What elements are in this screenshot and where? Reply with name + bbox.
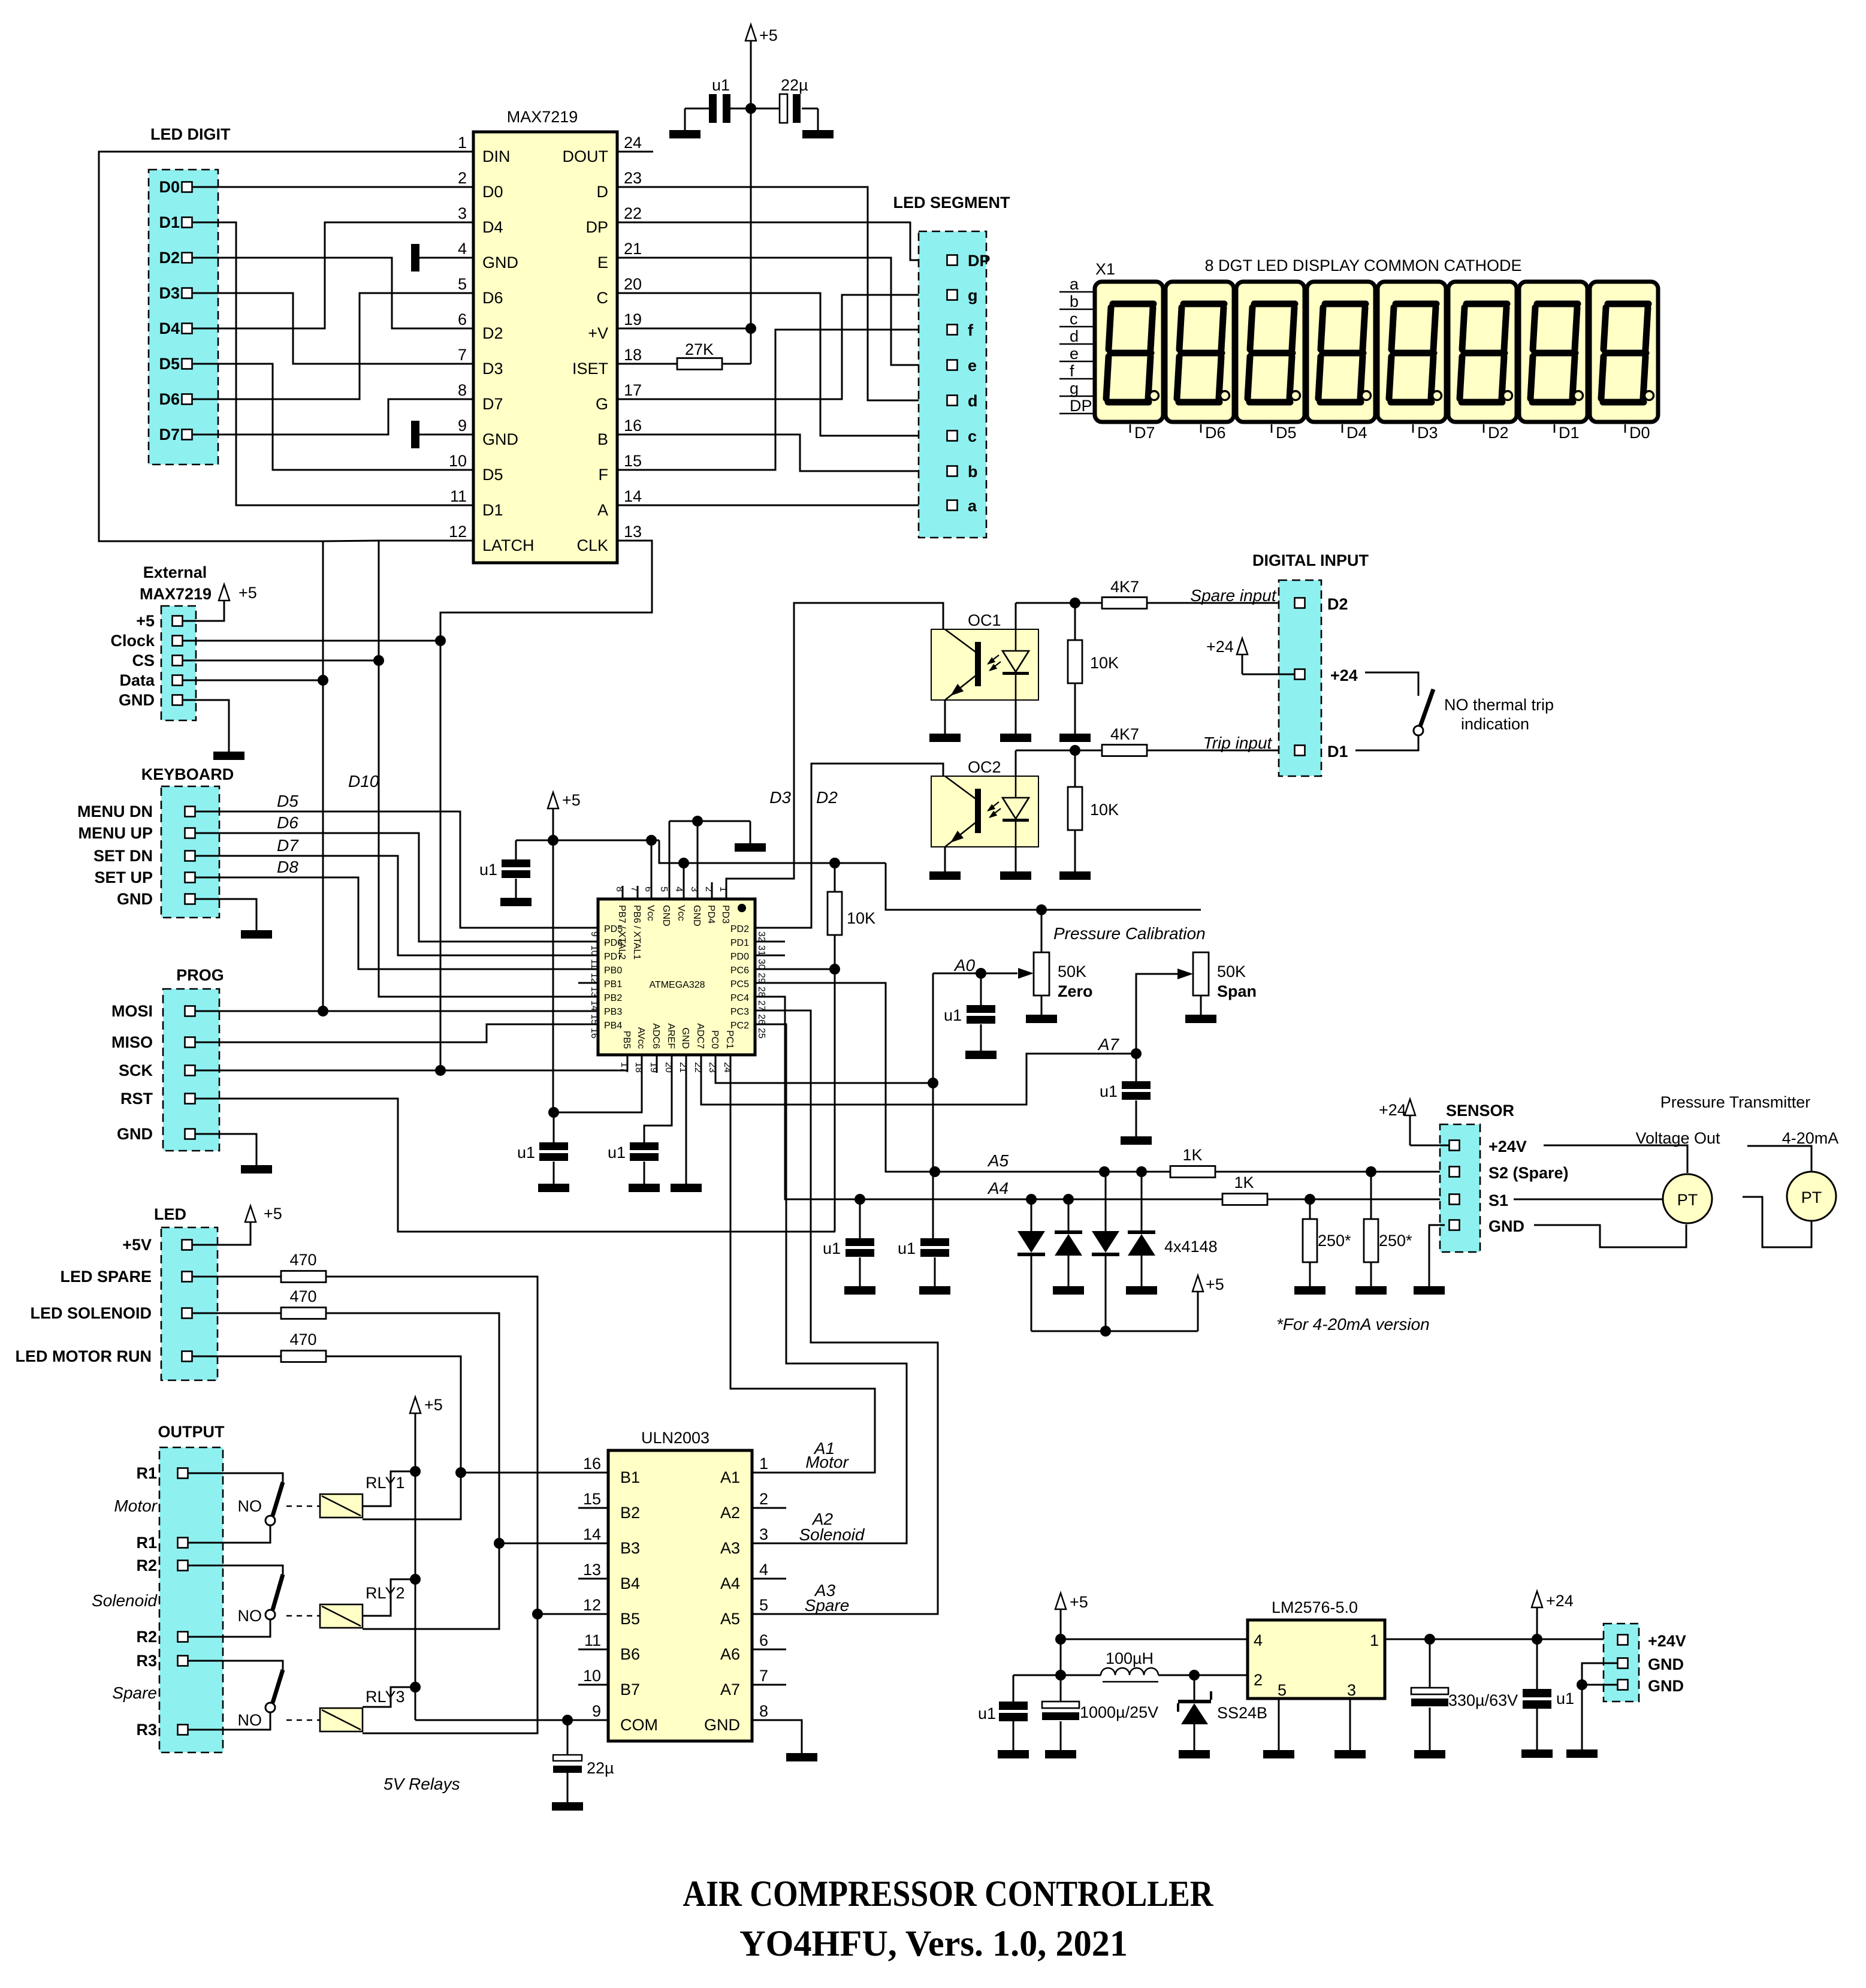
svg-text:6: 6 bbox=[759, 1631, 768, 1649]
svg-text:B4: B4 bbox=[620, 1574, 640, 1592]
svg-text:13: 13 bbox=[624, 523, 642, 541]
svg-text:PROG: PROG bbox=[176, 966, 224, 984]
svg-text:PD4: PD4 bbox=[706, 905, 716, 924]
svg-text:10: 10 bbox=[589, 945, 599, 956]
svg-text:S1: S1 bbox=[1488, 1191, 1508, 1209]
svg-text:R2: R2 bbox=[136, 1628, 157, 1646]
svg-text:A4: A4 bbox=[720, 1574, 740, 1592]
svg-text:ULN2003: ULN2003 bbox=[641, 1429, 709, 1447]
svg-text:AVcc: AVcc bbox=[636, 1027, 646, 1049]
svg-text:PB2: PB2 bbox=[604, 993, 622, 1003]
svg-text:D4: D4 bbox=[1346, 424, 1367, 442]
svg-text:indication: indication bbox=[1461, 715, 1529, 733]
svg-text:1: 1 bbox=[1370, 1631, 1379, 1649]
svg-text:15: 15 bbox=[589, 1014, 599, 1025]
svg-text:D1: D1 bbox=[159, 213, 180, 231]
svg-text:Motor: Motor bbox=[114, 1497, 158, 1515]
svg-text:e: e bbox=[1070, 345, 1079, 363]
svg-text:+5: +5 bbox=[759, 26, 778, 44]
svg-text:B5: B5 bbox=[620, 1610, 640, 1628]
svg-text:5: 5 bbox=[458, 275, 467, 293]
svg-text:R1: R1 bbox=[136, 1534, 157, 1552]
svg-text:Motor: Motor bbox=[805, 1453, 849, 1471]
svg-text:470: 470 bbox=[289, 1287, 316, 1305]
svg-text:+5: +5 bbox=[238, 584, 257, 602]
svg-text:30: 30 bbox=[756, 959, 766, 970]
svg-text:LM2576-5.0: LM2576-5.0 bbox=[1272, 1598, 1358, 1616]
svg-text:PD2: PD2 bbox=[730, 924, 749, 934]
svg-text:470: 470 bbox=[289, 1251, 316, 1269]
svg-text:5: 5 bbox=[759, 1596, 768, 1614]
svg-text:27K: 27K bbox=[685, 340, 714, 358]
svg-text:F: F bbox=[599, 466, 609, 484]
svg-text:GND: GND bbox=[482, 254, 518, 271]
svg-text:PB0: PB0 bbox=[604, 966, 622, 976]
svg-text:330µ/63V: 330µ/63V bbox=[1448, 1691, 1518, 1709]
svg-text:PD3: PD3 bbox=[720, 905, 730, 924]
svg-text:B6: B6 bbox=[620, 1645, 640, 1663]
svg-text:4: 4 bbox=[458, 240, 467, 258]
svg-text:D2: D2 bbox=[816, 788, 838, 807]
svg-text:PT: PT bbox=[1677, 1191, 1698, 1209]
svg-text:GND: GND bbox=[482, 430, 518, 448]
svg-text:D0: D0 bbox=[159, 178, 180, 196]
svg-text:1: 1 bbox=[458, 134, 467, 152]
svg-text:D2: D2 bbox=[159, 249, 180, 267]
svg-text:4: 4 bbox=[759, 1561, 768, 1579]
svg-text:1000µ/25V: 1000µ/25V bbox=[1080, 1703, 1158, 1721]
svg-text:PD0: PD0 bbox=[730, 952, 749, 962]
svg-text:+24V: +24V bbox=[1488, 1138, 1527, 1156]
svg-text:Solenoid: Solenoid bbox=[799, 1525, 865, 1544]
svg-text:D6: D6 bbox=[1205, 424, 1226, 442]
svg-text:C: C bbox=[597, 289, 609, 307]
svg-text:OUTPUT: OUTPUT bbox=[158, 1423, 225, 1441]
svg-text:Spare: Spare bbox=[112, 1684, 157, 1702]
svg-text:ISET: ISET bbox=[572, 360, 608, 378]
svg-text:PT: PT bbox=[1801, 1188, 1822, 1206]
svg-text:SENSOR: SENSOR bbox=[1446, 1102, 1514, 1120]
svg-text:3: 3 bbox=[458, 204, 467, 222]
svg-text:D0: D0 bbox=[482, 183, 503, 201]
svg-text:24: 24 bbox=[624, 134, 642, 152]
svg-text:23: 23 bbox=[624, 169, 642, 187]
svg-text:8: 8 bbox=[458, 381, 467, 399]
svg-text:PC0: PC0 bbox=[709, 1030, 720, 1049]
svg-text:u1: u1 bbox=[978, 1705, 996, 1722]
svg-text:DP: DP bbox=[968, 252, 991, 270]
svg-text:PB6 / XTAL1: PB6 / XTAL1 bbox=[632, 905, 642, 960]
svg-text:SET UP: SET UP bbox=[94, 868, 153, 886]
svg-text:GND: GND bbox=[661, 905, 671, 927]
svg-text:+5V: +5V bbox=[122, 1236, 152, 1254]
svg-text:d: d bbox=[968, 392, 978, 410]
svg-text:DIN: DIN bbox=[482, 147, 511, 165]
svg-text:u1: u1 bbox=[479, 861, 497, 879]
svg-text:21: 21 bbox=[624, 240, 642, 258]
svg-text:AREF: AREF bbox=[666, 1023, 676, 1049]
svg-text:D6: D6 bbox=[482, 289, 503, 307]
svg-text:MOSI: MOSI bbox=[111, 1002, 153, 1020]
svg-text:1K: 1K bbox=[1182, 1146, 1202, 1164]
svg-text:10K: 10K bbox=[1090, 654, 1119, 672]
svg-text:Zero: Zero bbox=[1058, 982, 1093, 1000]
svg-text:8: 8 bbox=[759, 1702, 768, 1720]
svg-text:f: f bbox=[1070, 362, 1074, 380]
svg-text:10: 10 bbox=[583, 1667, 601, 1685]
svg-text:PC6: PC6 bbox=[730, 966, 749, 976]
svg-text:PB4: PB4 bbox=[604, 1021, 622, 1031]
svg-text:2: 2 bbox=[458, 169, 467, 187]
svg-text:GND: GND bbox=[1648, 1677, 1684, 1695]
svg-text:250*: 250* bbox=[1318, 1232, 1351, 1250]
svg-text:LED SOLENOID: LED SOLENOID bbox=[30, 1304, 152, 1322]
svg-text:D1: D1 bbox=[482, 501, 503, 519]
svg-text:MAX7219: MAX7219 bbox=[507, 108, 578, 126]
svg-text:A1: A1 bbox=[720, 1468, 740, 1486]
svg-text:u1: u1 bbox=[608, 1144, 626, 1162]
svg-text:X1: X1 bbox=[1095, 260, 1115, 278]
svg-text:OC1: OC1 bbox=[968, 611, 1001, 629]
svg-text:c: c bbox=[1070, 310, 1078, 328]
svg-text:GND: GND bbox=[680, 1027, 690, 1049]
svg-text:50K: 50K bbox=[1217, 963, 1246, 981]
svg-text:D2: D2 bbox=[1327, 595, 1348, 613]
svg-text:SS24B: SS24B bbox=[1217, 1704, 1267, 1722]
svg-text:MISO: MISO bbox=[111, 1033, 153, 1051]
svg-text:2: 2 bbox=[1254, 1671, 1263, 1689]
svg-text:SET DN: SET DN bbox=[93, 847, 153, 865]
svg-text:25: 25 bbox=[756, 1028, 766, 1039]
svg-text:16: 16 bbox=[589, 1028, 599, 1039]
svg-text:32: 32 bbox=[756, 931, 766, 942]
svg-text:D7: D7 bbox=[277, 836, 299, 855]
svg-text:GND: GND bbox=[1648, 1655, 1684, 1673]
svg-text:LED: LED bbox=[154, 1205, 186, 1223]
svg-text:13: 13 bbox=[589, 987, 599, 997]
svg-text:CS: CS bbox=[132, 651, 155, 669]
svg-text:D0: D0 bbox=[1629, 424, 1650, 442]
svg-text:1K: 1K bbox=[1234, 1174, 1254, 1191]
svg-text:b: b bbox=[968, 463, 978, 481]
svg-text:10K: 10K bbox=[847, 909, 875, 927]
svg-text:NO thermal trip: NO thermal trip bbox=[1444, 696, 1554, 714]
svg-text:PC5: PC5 bbox=[730, 979, 749, 990]
svg-text:B1: B1 bbox=[620, 1468, 640, 1486]
svg-text:50K: 50K bbox=[1058, 963, 1086, 981]
svg-text:A7: A7 bbox=[720, 1681, 740, 1699]
svg-text:16: 16 bbox=[624, 417, 642, 435]
svg-text:MENU UP: MENU UP bbox=[78, 824, 153, 842]
svg-text:+24: +24 bbox=[1206, 638, 1234, 656]
svg-text:R1: R1 bbox=[136, 1464, 157, 1482]
svg-text:+24: +24 bbox=[1546, 1592, 1574, 1610]
svg-text:10K: 10K bbox=[1090, 801, 1119, 819]
svg-text:31: 31 bbox=[756, 945, 766, 956]
svg-text:D5: D5 bbox=[277, 792, 298, 810]
svg-text:17: 17 bbox=[619, 1062, 629, 1073]
svg-text:6: 6 bbox=[458, 310, 467, 328]
svg-text:RLY2: RLY2 bbox=[366, 1584, 405, 1602]
svg-text:D7: D7 bbox=[1134, 424, 1155, 442]
svg-text:D3: D3 bbox=[482, 360, 503, 378]
svg-text:D7: D7 bbox=[159, 426, 180, 444]
svg-text:DIGITAL INPUT: DIGITAL INPUT bbox=[1252, 551, 1369, 569]
svg-text:D2: D2 bbox=[1488, 424, 1509, 442]
svg-text:A3: A3 bbox=[720, 1539, 740, 1557]
svg-text:Voltage Out: Voltage Out bbox=[1635, 1129, 1720, 1147]
svg-text:GND: GND bbox=[119, 691, 155, 709]
svg-text:D7: D7 bbox=[482, 395, 503, 413]
svg-text:KEYBOARD: KEYBOARD bbox=[141, 765, 234, 783]
svg-text:LED DIGIT: LED DIGIT bbox=[150, 125, 231, 143]
svg-text:28: 28 bbox=[756, 987, 766, 997]
svg-text:LED SEGMENT: LED SEGMENT bbox=[893, 194, 1010, 212]
svg-text:11: 11 bbox=[584, 1631, 601, 1649]
svg-text:14: 14 bbox=[583, 1525, 601, 1543]
svg-text:g: g bbox=[1070, 379, 1079, 397]
svg-text:9: 9 bbox=[589, 931, 599, 937]
svg-text:+5: +5 bbox=[264, 1205, 282, 1223]
svg-text:Pressure Calibration: Pressure Calibration bbox=[1053, 924, 1206, 943]
svg-text:3: 3 bbox=[1347, 1681, 1356, 1699]
svg-text:17: 17 bbox=[624, 381, 642, 399]
svg-text:D4: D4 bbox=[482, 218, 503, 236]
svg-text:YO4HFU, Vers. 1.0, 2021: YO4HFU, Vers. 1.0, 2021 bbox=[739, 1924, 1128, 1964]
svg-text:u1: u1 bbox=[898, 1239, 916, 1257]
svg-text:LATCH: LATCH bbox=[482, 536, 535, 554]
svg-text:7: 7 bbox=[458, 346, 467, 364]
svg-text:D2: D2 bbox=[482, 324, 503, 342]
svg-text:A2: A2 bbox=[720, 1504, 740, 1522]
svg-text:B7: B7 bbox=[620, 1681, 640, 1699]
svg-text:GND: GND bbox=[117, 890, 153, 908]
svg-text:COM: COM bbox=[620, 1716, 658, 1734]
svg-text:R3: R3 bbox=[136, 1721, 157, 1739]
svg-text:u1: u1 bbox=[823, 1239, 841, 1257]
svg-text:D10: D10 bbox=[348, 772, 379, 791]
svg-text:8 DGT LED DISPLAY COMMON CATHO: 8 DGT LED DISPLAY COMMON CATHODE bbox=[1204, 257, 1521, 274]
svg-text:u1: u1 bbox=[517, 1144, 535, 1162]
svg-text:u1: u1 bbox=[1556, 1690, 1574, 1708]
svg-text:D: D bbox=[597, 183, 609, 201]
svg-text:NO: NO bbox=[238, 1607, 262, 1625]
svg-text:g: g bbox=[968, 286, 978, 304]
svg-text:RLY1: RLY1 bbox=[366, 1474, 405, 1492]
svg-text:CLK: CLK bbox=[576, 536, 608, 554]
svg-text:A7: A7 bbox=[1097, 1035, 1120, 1054]
svg-text:4x4148: 4x4148 bbox=[1164, 1238, 1218, 1256]
svg-text:5: 5 bbox=[659, 886, 669, 892]
svg-text:Trip input: Trip input bbox=[1203, 734, 1273, 752]
svg-text:22: 22 bbox=[624, 204, 642, 222]
svg-text:+24: +24 bbox=[1330, 666, 1358, 684]
svg-text:Vcc: Vcc bbox=[645, 905, 656, 921]
svg-text:4K7: 4K7 bbox=[1110, 725, 1139, 743]
svg-text:c: c bbox=[968, 427, 977, 445]
svg-text:PC2: PC2 bbox=[730, 1021, 749, 1031]
svg-text:4: 4 bbox=[674, 886, 684, 892]
svg-text:DP: DP bbox=[585, 218, 608, 236]
svg-text:MENU DN: MENU DN bbox=[77, 803, 153, 820]
svg-text:Clock: Clock bbox=[110, 632, 155, 650]
svg-text:4: 4 bbox=[1254, 1631, 1263, 1649]
svg-text:*For 4-20mA version: *For 4-20mA version bbox=[1276, 1315, 1430, 1334]
svg-text:A4: A4 bbox=[987, 1179, 1009, 1197]
svg-text:u1: u1 bbox=[1100, 1082, 1118, 1100]
svg-text:Vcc: Vcc bbox=[676, 905, 686, 921]
svg-text:27: 27 bbox=[756, 1000, 766, 1011]
svg-text:5V Relays: 5V Relays bbox=[384, 1775, 460, 1793]
svg-text:470: 470 bbox=[289, 1331, 316, 1349]
svg-text:RLY3: RLY3 bbox=[366, 1688, 405, 1706]
svg-text:22µ: 22µ bbox=[781, 76, 808, 94]
svg-text:A6: A6 bbox=[720, 1645, 740, 1663]
svg-text:14: 14 bbox=[624, 487, 642, 505]
svg-text:18: 18 bbox=[624, 346, 642, 364]
svg-text:Spare input: Spare input bbox=[1190, 586, 1276, 605]
svg-text:D5: D5 bbox=[1276, 424, 1297, 442]
svg-text:A0: A0 bbox=[953, 956, 976, 975]
svg-text:R3: R3 bbox=[136, 1652, 157, 1670]
svg-text:+5: +5 bbox=[424, 1396, 443, 1414]
svg-text:LED SPARE: LED SPARE bbox=[60, 1268, 152, 1286]
svg-text:a: a bbox=[1070, 275, 1079, 293]
svg-text:D5: D5 bbox=[159, 355, 180, 373]
svg-text:3: 3 bbox=[759, 1525, 768, 1543]
svg-text:b: b bbox=[1070, 292, 1079, 310]
svg-text:+24: +24 bbox=[1379, 1101, 1406, 1119]
svg-text:20: 20 bbox=[624, 275, 642, 293]
svg-text:+V: +V bbox=[588, 324, 608, 342]
svg-text:B3: B3 bbox=[620, 1539, 640, 1557]
svg-text:14: 14 bbox=[589, 1000, 599, 1011]
svg-text:E: E bbox=[597, 254, 608, 271]
svg-text:u1: u1 bbox=[944, 1006, 962, 1024]
svg-text:12: 12 bbox=[589, 973, 599, 984]
svg-text:9: 9 bbox=[458, 417, 467, 435]
svg-text:4K7: 4K7 bbox=[1110, 578, 1139, 596]
svg-text:15: 15 bbox=[624, 452, 642, 470]
svg-text:AIR COMPRESSOR CONTROLLER: AIR COMPRESSOR CONTROLLER bbox=[683, 1874, 1214, 1914]
svg-text:2: 2 bbox=[759, 1490, 768, 1508]
svg-text:PB3: PB3 bbox=[604, 1007, 622, 1017]
svg-text:GND: GND bbox=[1488, 1217, 1524, 1235]
svg-text:SCK: SCK bbox=[119, 1061, 153, 1079]
svg-text:LED MOTOR RUN: LED MOTOR RUN bbox=[16, 1347, 152, 1365]
svg-text:26: 26 bbox=[756, 1014, 766, 1025]
svg-text:A: A bbox=[597, 501, 608, 519]
svg-text:PC4: PC4 bbox=[730, 993, 749, 1003]
svg-text:D6: D6 bbox=[277, 813, 298, 832]
svg-text:D1: D1 bbox=[1559, 424, 1580, 442]
svg-text:DOUT: DOUT bbox=[563, 147, 609, 165]
svg-text:4-20mA: 4-20mA bbox=[1782, 1129, 1839, 1147]
svg-text:A5: A5 bbox=[987, 1151, 1009, 1170]
svg-text:+5: +5 bbox=[562, 791, 581, 809]
svg-text:RST: RST bbox=[120, 1090, 153, 1108]
svg-text:15: 15 bbox=[583, 1490, 601, 1508]
svg-text:a: a bbox=[968, 497, 977, 515]
svg-text:PB7 / XTAL2: PB7 / XTAL2 bbox=[617, 905, 627, 960]
svg-text:f: f bbox=[968, 321, 974, 339]
svg-text:D4: D4 bbox=[159, 319, 180, 337]
svg-text:PD1: PD1 bbox=[730, 938, 749, 948]
svg-text:Solenoid: Solenoid bbox=[92, 1591, 158, 1610]
svg-text:Pressure Transmitter: Pressure Transmitter bbox=[1660, 1093, 1811, 1111]
svg-text:B2: B2 bbox=[620, 1504, 640, 1522]
svg-text:S2 (Spare): S2 (Spare) bbox=[1488, 1164, 1569, 1182]
svg-text:GND: GND bbox=[117, 1125, 153, 1143]
svg-text:250*: 250* bbox=[1379, 1232, 1412, 1250]
svg-text:Data: Data bbox=[119, 671, 155, 689]
svg-text:MAX7219: MAX7219 bbox=[140, 585, 212, 603]
svg-text:12: 12 bbox=[449, 523, 467, 541]
svg-text:+24V: +24V bbox=[1648, 1632, 1686, 1650]
svg-text:D3: D3 bbox=[769, 788, 791, 807]
svg-text:9: 9 bbox=[592, 1702, 601, 1720]
svg-text:PB1: PB1 bbox=[604, 979, 622, 990]
svg-text:ADC6: ADC6 bbox=[651, 1023, 661, 1049]
svg-text:7: 7 bbox=[759, 1667, 768, 1685]
svg-text:+5: +5 bbox=[1206, 1275, 1224, 1293]
svg-text:D3: D3 bbox=[1417, 424, 1438, 442]
svg-text:Span: Span bbox=[1217, 982, 1257, 1000]
svg-text:NO: NO bbox=[238, 1711, 262, 1729]
svg-text:d: d bbox=[1070, 327, 1079, 345]
svg-text:GND: GND bbox=[692, 905, 702, 927]
svg-text:PB5: PB5 bbox=[621, 1031, 632, 1049]
svg-text:OC2: OC2 bbox=[968, 758, 1001, 776]
svg-text:100µH: 100µH bbox=[1106, 1649, 1154, 1667]
svg-text:19: 19 bbox=[624, 310, 642, 328]
svg-text:GND: GND bbox=[704, 1716, 740, 1734]
svg-text:22µ: 22µ bbox=[587, 1759, 614, 1777]
svg-text:11: 11 bbox=[450, 487, 467, 505]
svg-text:R2: R2 bbox=[136, 1556, 157, 1574]
svg-text:B: B bbox=[597, 430, 608, 448]
svg-text:External: External bbox=[143, 563, 207, 581]
svg-text:DP: DP bbox=[1070, 397, 1092, 415]
svg-text:10: 10 bbox=[449, 452, 467, 470]
svg-text:16: 16 bbox=[583, 1455, 601, 1473]
svg-text:12: 12 bbox=[583, 1596, 601, 1614]
svg-text:PC1: PC1 bbox=[724, 1030, 735, 1049]
svg-text:u1: u1 bbox=[712, 76, 730, 94]
svg-text:ATMEGA328: ATMEGA328 bbox=[649, 980, 705, 990]
svg-text:G: G bbox=[596, 395, 608, 413]
svg-text:29: 29 bbox=[756, 973, 766, 984]
svg-text:D3: D3 bbox=[159, 284, 180, 302]
svg-text:e: e bbox=[968, 357, 977, 375]
svg-text:5: 5 bbox=[1278, 1681, 1287, 1699]
svg-text:D5: D5 bbox=[482, 466, 503, 484]
svg-text:D8: D8 bbox=[277, 858, 298, 876]
svg-text:A5: A5 bbox=[720, 1610, 740, 1628]
svg-text:NO: NO bbox=[238, 1497, 262, 1515]
svg-text:D1: D1 bbox=[1327, 743, 1348, 761]
svg-text:1: 1 bbox=[759, 1455, 768, 1473]
svg-text:+5: +5 bbox=[136, 612, 155, 630]
svg-text:13: 13 bbox=[583, 1561, 601, 1579]
svg-text:ADC7: ADC7 bbox=[695, 1023, 705, 1049]
svg-text:Spare: Spare bbox=[805, 1596, 850, 1615]
svg-text:+5: +5 bbox=[1070, 1593, 1088, 1611]
svg-text:D6: D6 bbox=[159, 390, 180, 408]
svg-text:11: 11 bbox=[589, 959, 599, 969]
svg-text:PC3: PC3 bbox=[730, 1007, 749, 1017]
